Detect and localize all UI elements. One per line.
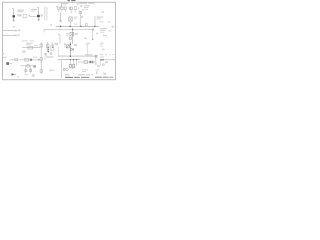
junction dots on W8 mid <box>70 59 71 60</box>
label right of X1 <box>74 16 78 19</box>
wire net N7 vertical <box>59 35 61 44</box>
diode D1 on W4 <box>80 25 82 27</box>
IC U2 small box <box>51 45 54 50</box>
label right of N5 <box>97 16 104 19</box>
diode network N11 vertical <box>69 42 71 56</box>
junction W5/N6 <box>72 29 73 30</box>
small label <box>12 26 15 27</box>
resistor R4 <box>70 7 73 10</box>
label <box>65 74 70 75</box>
small parts bottom right of center <box>97 65 100 67</box>
label above N15 <box>86 42 90 45</box>
tie below C6 C7 <box>69 68 75 69</box>
top edge dark dash 1 <box>68 0 70 1</box>
wire net N2 vertical <box>37 7 39 21</box>
wire W6 <box>22 47 40 49</box>
capacitor C7 <box>73 64 75 67</box>
wire net N3 vertical with ground <box>60 12 62 20</box>
inductor L2 <box>40 58 43 61</box>
wire from top border to R2 <box>60 3 62 8</box>
ticks under L2 <box>40 62 42 63</box>
wire net N9 with node dot <box>52 42 54 47</box>
resistor R1 <box>57 7 59 9</box>
small label <box>78 7 79 8</box>
label text for C1 <box>18 9 25 12</box>
part row above title: box <box>63 68 65 70</box>
power bus W4 <box>56 25 99 27</box>
stubs below resistor row <box>58 9 75 13</box>
small part right <box>96 33 98 34</box>
capacitor C6 <box>69 64 71 67</box>
resistor R7 on W6 <box>28 46 33 49</box>
labels near X2 <box>66 32 69 35</box>
J2 pin ticks <box>44 8 45 18</box>
note text under mid rail <box>22 39 28 42</box>
transistor Q1 (dark) <box>6 62 9 65</box>
resistor R3 <box>64 7 66 9</box>
crystal X2 (box with X) <box>70 32 74 36</box>
top edge dark dash 2 <box>71 0 75 1</box>
capacitor C1 (dark body) <box>13 15 16 17</box>
wire net N15 vertical <box>86 45 88 56</box>
ferrite bead FB1 <box>79 12 81 14</box>
rail W8 mid segment <box>58 59 81 61</box>
LED DS1 circle <box>66 68 68 70</box>
IC U1 rail vertical <box>40 42 42 74</box>
rail W8 left segment <box>10 59 39 61</box>
left border tick <box>3 56 5 58</box>
drop from TP1 <box>92 30 94 40</box>
hook at left of W5 <box>43 30 45 33</box>
crystal X1 (box with X) <box>69 17 73 21</box>
connector J1 box <box>23 14 27 17</box>
left border tiny mark <box>3 53 4 55</box>
labels <box>25 74 28 75</box>
rail W10 right <box>100 59 115 61</box>
arrow end of W8 <box>38 59 40 61</box>
connector J2 pin column b <box>46 7 48 21</box>
junction on W4 at N3 <box>60 26 62 28</box>
wire W2 from left border <box>3 34 16 36</box>
node tick N2 <box>37 6 39 8</box>
title block text row 2 <box>78 74 85 75</box>
varistor RV1 (box with slash) <box>66 45 69 48</box>
part at left of W8 <box>15 58 18 60</box>
label above C5 <box>33 57 37 58</box>
label below W6 <box>22 50 25 52</box>
junction on W4 right <box>94 26 96 28</box>
wire W1 from left border <box>3 30 16 32</box>
wire net N5 vertical <box>94 16 96 26</box>
stub from W4 up to XB1 <box>69 21 71 26</box>
capacitor C11 dark on W11 <box>33 65 36 67</box>
labels under C4 <box>44 53 46 56</box>
resistor R10 on W11 <box>27 65 29 68</box>
wire net N1 vertical <box>13 9 15 21</box>
wire net N14 vertical <box>95 56 97 65</box>
inductor L1 <box>40 44 43 47</box>
transistor Q2 arrow bottom left <box>12 73 15 76</box>
capacitor C8 dark pair <box>89 61 91 63</box>
label above R7 <box>34 44 39 47</box>
resistor R2 <box>61 7 64 10</box>
left mid text block <box>26 42 33 45</box>
resistor R8 on W8 <box>25 58 29 61</box>
connector end of W7 <box>95 55 97 57</box>
off-page connector P1 <box>16 30 18 32</box>
label <box>46 56 53 57</box>
resistor R5 <box>74 7 77 10</box>
rail W11 <box>21 65 34 67</box>
resistor R9 on W9 <box>84 61 88 64</box>
right notes text rows <box>100 27 106 30</box>
inductor L3 <box>40 70 43 73</box>
resistor row labels <box>63 2 68 5</box>
small part left of bus end <box>85 24 87 26</box>
notes block icon <box>80 5 82 7</box>
label left of N7 <box>58 34 60 35</box>
label text block T3 <box>31 8 37 11</box>
small box <box>103 64 105 66</box>
junction W7 <box>70 55 72 57</box>
capacitor C4 <box>46 44 49 48</box>
capacitor C2 (dark body) <box>37 15 40 17</box>
ground under C2 <box>37 19 40 20</box>
small label right <box>102 11 104 13</box>
wire net N4 vertical <box>79 11 81 26</box>
labels near RV1 <box>64 44 66 45</box>
tiny mark <box>50 24 52 26</box>
dark segment on W10 <box>100 59 104 60</box>
small vertical mark <box>95 71 98 74</box>
title block texts above caption <box>82 68 88 71</box>
wire net N6 vertical <box>72 28 74 44</box>
cap C10 <box>30 66 32 73</box>
dark tick on R4 <box>69 7 72 9</box>
bottom-left cluster: cap C9 <box>25 66 27 73</box>
wire net N12 vertical <box>76 60 78 66</box>
notes text block row1 <box>80 2 87 5</box>
right notes text block 2 <box>100 42 104 45</box>
node dots on N8 <box>48 47 49 48</box>
wire net N10 short <box>44 56 46 60</box>
capacitor C5 dark on W8 <box>30 59 32 61</box>
stub down 1 <box>69 60 71 65</box>
connector J2 pin column a <box>44 7 46 21</box>
node A tick <box>12 8 14 10</box>
small parts mid bottom <box>50 70 52 72</box>
diode D2 <box>70 48 73 51</box>
rail W5 <box>43 29 92 31</box>
off-page connector P2 <box>16 34 18 36</box>
label near J2 <box>40 13 42 16</box>
junction on W4 mid <box>69 26 71 28</box>
terminal TP1 <box>92 29 94 31</box>
caption row (sheet title) <box>65 77 73 78</box>
wire net N8 vertical <box>47 42 49 52</box>
wire net N13 vertical long <box>60 60 62 78</box>
label right of C2 <box>40 14 43 17</box>
faint vertical left <box>64 43 66 48</box>
corner wire at node B <box>85 37 87 39</box>
right bottom text rows <box>100 53 103 56</box>
wire W3 into C2 <box>29 15 37 17</box>
label above W7 <box>85 54 92 55</box>
capacitor C3 below X2 <box>69 37 71 39</box>
rail W9 <box>78 61 95 63</box>
rail W7 <box>58 55 97 57</box>
label left of W3 <box>28 15 30 16</box>
ground under C1 <box>12 20 15 22</box>
faint vertical <box>100 60 102 66</box>
ground G3 <box>59 21 62 22</box>
sheet border frame <box>3 2 116 80</box>
stub down 2 <box>73 60 75 65</box>
label below W10 <box>105 61 108 63</box>
